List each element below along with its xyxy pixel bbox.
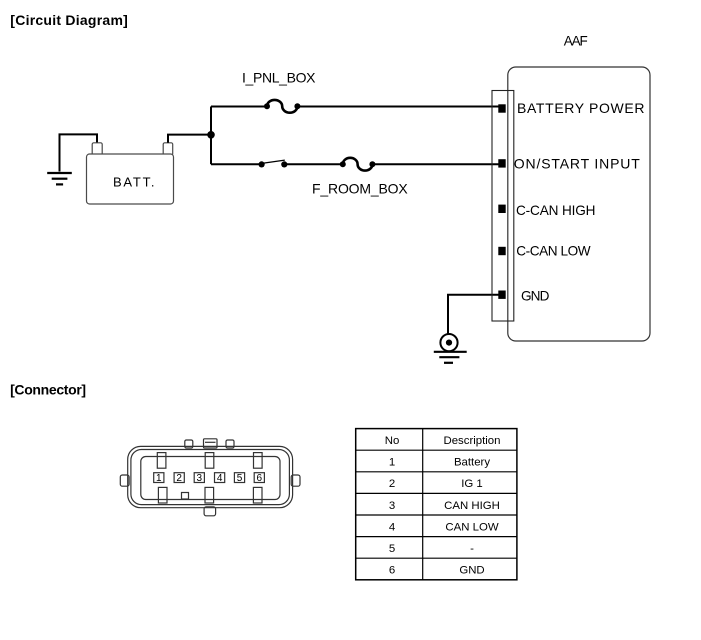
svg-text:I_PNL_BOX: I_PNL_BOX: [242, 69, 316, 85]
svg-text:[Circuit Diagram]: [Circuit Diagram]: [10, 12, 128, 28]
switch F_ROOM_BOX: [259, 160, 288, 167]
svg-text:AAF: AAF: [564, 34, 588, 49]
pin 1 BATTERY POWER: [498, 104, 505, 112]
wire junction riser: [210, 107, 212, 165]
connector top tab left: [185, 440, 193, 448]
svg-text:C-CAN HIGH: C-CAN HIGH: [516, 203, 596, 218]
svg-text:GND: GND: [459, 565, 484, 577]
pin 4 C-CAN LOW: [498, 247, 505, 255]
connector key square: [182, 493, 189, 500]
connector slot bottom 2: [205, 487, 214, 503]
fuse F_ROOM_BOX: [340, 158, 376, 171]
fuse I_PNL_BOX: [264, 100, 300, 113]
svg-text:Battery: Battery: [454, 457, 490, 469]
connector mid outline: [131, 450, 290, 505]
wire fuse to pin ON/START INPUT: [372, 163, 499, 165]
connector slot bottom 3: [253, 487, 262, 503]
svg-text:C-CAN LOW: C-CAN LOW: [516, 244, 591, 259]
wire fuse to pin BATTERY POWER: [297, 106, 499, 108]
pin table: [356, 429, 517, 580]
wire battery positive to junction: [168, 135, 211, 143]
svg-text:GND: GND: [521, 289, 550, 304]
node junction: [207, 131, 215, 139]
svg-text:5: 5: [389, 543, 395, 555]
chassis ground: [434, 334, 467, 363]
ground (battery): [47, 173, 72, 184]
connector bottom tab: [204, 507, 216, 516]
svg-text:3: 3: [197, 473, 203, 484]
wire switch to fuse F_ROOM_BOX: [284, 163, 343, 165]
wire battery negative to ground: [60, 134, 98, 171]
svg-text:F_ROOM_BOX: F_ROOM_BOX: [312, 181, 408, 197]
svg-text:CAN LOW: CAN LOW: [445, 521, 498, 533]
battery BATT.: [87, 143, 174, 204]
svg-text:5: 5: [237, 473, 243, 484]
svg-text:3: 3: [389, 500, 395, 512]
svg-text:6: 6: [389, 565, 395, 577]
connector cavity 2: [174, 473, 184, 483]
connector slot bottom 1: [158, 487, 167, 503]
pin 5 GND: [498, 291, 505, 299]
connector right wing: [291, 475, 300, 486]
connector cavity 5: [234, 473, 244, 483]
connector slot top 3: [254, 453, 263, 469]
svg-text:-: -: [470, 543, 474, 555]
connector slot top 1: [157, 453, 166, 469]
connector slot top 2: [205, 453, 214, 469]
svg-text:2: 2: [389, 478, 395, 490]
svg-text:[Connector]: [Connector]: [10, 381, 86, 397]
pin 3 C-CAN HIGH: [498, 205, 505, 213]
AAF box: [508, 67, 650, 341]
svg-text:4: 4: [217, 473, 223, 484]
svg-text:2: 2: [176, 473, 182, 484]
svg-text:ON/START INPUT: ON/START INPUT: [514, 156, 640, 172]
connector pin numbers: [156, 473, 262, 484]
connector top tab right: [226, 440, 234, 448]
wire GND pin to chassis ground: [448, 295, 499, 334]
svg-text:1: 1: [389, 457, 395, 469]
connector inner outline: [141, 457, 280, 500]
connector cavity 6: [254, 473, 264, 483]
svg-text:No: No: [385, 435, 400, 447]
connector strip: [492, 91, 514, 322]
connector cavity 3: [194, 473, 204, 483]
svg-text:4: 4: [389, 521, 395, 533]
wire to fuse I_PNL_BOX: [211, 106, 267, 108]
svg-text:Description: Description: [444, 435, 501, 447]
svg-text:6: 6: [257, 473, 263, 484]
connector outer body: [128, 446, 293, 507]
connector cavity 1: [154, 473, 164, 483]
connector left wing: [120, 475, 129, 486]
pin table text: [385, 435, 501, 577]
svg-text:IG 1: IG 1: [461, 478, 483, 490]
connector cavity 4: [215, 473, 225, 483]
svg-text:1: 1: [156, 473, 162, 484]
svg-text:BATT.: BATT.: [113, 175, 155, 190]
wire junction to switch: [211, 163, 262, 165]
svg-text:CAN HIGH: CAN HIGH: [444, 500, 500, 512]
connector drawing: [120, 439, 300, 516]
pin 2 ON/START INPUT: [498, 159, 505, 167]
svg-text:BATTERY POWER: BATTERY POWER: [517, 100, 645, 116]
connector top tab center lock: [204, 439, 218, 448]
